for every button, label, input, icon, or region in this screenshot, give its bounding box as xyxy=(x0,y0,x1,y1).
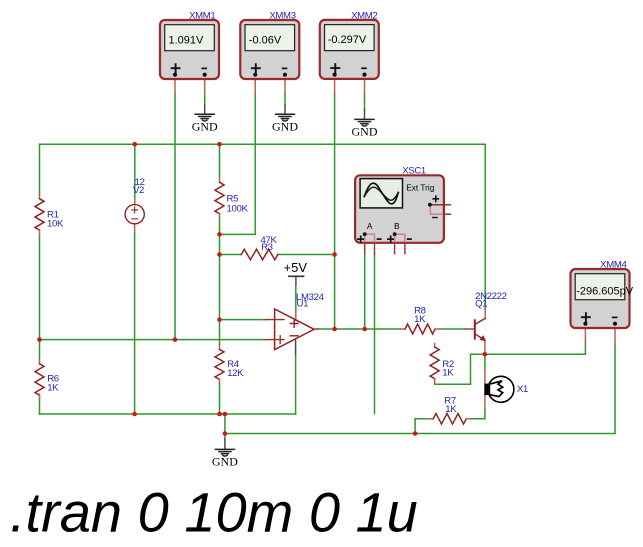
ground symbol bottom center xyxy=(212,449,238,468)
wire V2 top lead xyxy=(134,144,136,199)
svg-text:-296.605pV: -296.605pV xyxy=(576,286,634,298)
wire ground stub center xyxy=(224,414,226,439)
node V2 top on rail xyxy=(133,142,138,147)
wire scope A plus down xyxy=(364,254,366,329)
node R4 bottom on ground rail xyxy=(217,412,222,417)
wire XMM1 minus to gnd xyxy=(204,94,206,105)
wire opamp inverting input line xyxy=(220,319,266,321)
svg-text:U1: U1 xyxy=(297,299,309,310)
svg-text:GND: GND xyxy=(212,455,238,469)
wire +5V to opamp power xyxy=(295,285,297,311)
svg-text:V2: V2 xyxy=(133,185,144,196)
svg-text:1K: 1K xyxy=(442,368,454,379)
svg-text:Ext Trig: Ext Trig xyxy=(406,182,435,192)
svg-text:1.091V: 1.091V xyxy=(169,34,205,46)
voltage source V2 xyxy=(125,177,144,224)
resistor R4 xyxy=(215,345,244,384)
svg-text:-0.06V: -0.06V xyxy=(249,34,282,46)
node R1-R6 divider xyxy=(37,337,42,342)
resistor R8 xyxy=(400,305,440,334)
svg-text:R3: R3 xyxy=(261,242,273,253)
node Q1 emitter junction xyxy=(483,352,488,357)
resistor R7 xyxy=(429,395,470,424)
wire node to ground stub xyxy=(220,413,225,415)
svg-text:GND: GND xyxy=(272,119,298,133)
ext trig terminal xyxy=(433,196,438,201)
wire V2 bottom to ground rail xyxy=(134,233,136,414)
node output / scope A xyxy=(362,327,367,332)
svg-text:XMM3: XMM3 xyxy=(269,10,295,21)
svg-text:B: B xyxy=(394,221,400,231)
svg-text:.tran 0 10m 0 1u: .tran 0 10m 0 1u xyxy=(10,481,418,544)
wire left rail lower (R6 bottom to ground rail) xyxy=(39,398,41,414)
wire XMM3 plus down xyxy=(254,94,256,235)
wire opamp output line xyxy=(318,328,400,330)
wire emitter node left branch xyxy=(435,354,485,384)
svg-text:GND: GND xyxy=(192,119,218,133)
wire XMM3 plus to node xyxy=(220,233,256,235)
node gnd stub lower xyxy=(223,431,228,436)
wire XMM4 plus vertical xyxy=(584,344,586,355)
gnd stub XMM2 xyxy=(364,109,366,119)
svg-text:XMM2: XMM2 xyxy=(351,10,377,21)
scope sine wave xyxy=(364,183,398,204)
node V2 bottom on ground rail xyxy=(132,412,137,417)
wire R7 left xyxy=(415,418,429,420)
svg-text:100K: 100K xyxy=(227,203,249,214)
node R3 right / XMM2 xyxy=(332,252,337,257)
wire left rail upper (to R1) xyxy=(39,144,41,194)
svg-text:12K: 12K xyxy=(227,368,244,379)
oscilloscope XSC1 xyxy=(355,165,450,253)
node R7 on lower rail xyxy=(413,431,418,436)
gnd stub bottom xyxy=(224,439,226,450)
wire ground rail right xyxy=(225,433,615,435)
gnd stub XMM3 xyxy=(284,105,286,115)
transistor Q1 2N2222 xyxy=(466,291,507,341)
pin lamp bottom xyxy=(484,395,486,409)
resistor R2 xyxy=(430,344,454,385)
wire scope A minus down dangling xyxy=(374,254,376,414)
wire Q1 collector up to rail xyxy=(484,144,486,309)
gray wires xyxy=(205,105,365,450)
node R3 left xyxy=(217,252,222,257)
pin +5V vertical xyxy=(295,276,297,284)
wire opamp negative power down xyxy=(295,354,297,414)
node output / XMM2 xyxy=(332,327,337,332)
svg-text:1K: 1K xyxy=(445,404,457,415)
svg-text:-0.297V: -0.297V xyxy=(328,34,367,46)
pin XMM3 minus xyxy=(284,78,286,93)
wire XMM3 minus to gnd xyxy=(284,94,286,105)
wire lamp bottom xyxy=(484,409,486,419)
svg-text:XMM1: XMM1 xyxy=(189,10,215,21)
resistor R3 xyxy=(241,235,278,260)
wire ground rail left xyxy=(40,413,296,415)
wire XMM4 minus vertical xyxy=(614,344,616,434)
wire XMM1 plus down xyxy=(174,94,176,340)
pin V2 bottom xyxy=(134,224,136,233)
svg-text:A: A xyxy=(367,221,373,231)
pin XMM4 plus xyxy=(584,328,586,344)
ground symbol under XMM3 xyxy=(272,114,298,133)
svg-text:XSC1: XSC1 xyxy=(402,165,426,176)
pin opamp positive power xyxy=(295,310,297,320)
pin XMM2 plus xyxy=(334,78,336,93)
wire opamp noninverting input line xyxy=(40,339,266,341)
multimeter XMM3 xyxy=(240,10,299,79)
pin lamp top xyxy=(484,369,486,384)
multimeter XMM2 xyxy=(320,10,379,79)
svg-text:GND: GND xyxy=(352,125,378,139)
wire R3 right xyxy=(278,254,335,256)
node R5 top on rail xyxy=(217,142,222,147)
wire R5 top lead xyxy=(219,144,221,178)
node R5 bottom / XMM3 xyxy=(217,232,222,237)
power +5V symbol xyxy=(284,260,308,276)
svg-text:1K: 1K xyxy=(47,382,59,393)
wire emitter node to XMM4 plus xyxy=(485,353,586,355)
resistor R1 xyxy=(35,194,64,236)
node gnd stub on ground rail xyxy=(223,412,228,417)
svg-text:+5V: +5V xyxy=(284,260,308,275)
multimeter XMM4 xyxy=(571,259,634,328)
wire left rail mid (R1 bottom to R6 top via node) xyxy=(39,236,41,359)
lamp X1 xyxy=(484,376,528,402)
wire lamp top segment xyxy=(484,354,486,368)
pin XMM2 minus xyxy=(364,78,366,93)
svg-text:XMM4: XMM4 xyxy=(600,259,627,270)
pin opamp negative power xyxy=(295,339,297,354)
multimeter XMM1 xyxy=(160,10,219,79)
svg-text:Q1: Q1 xyxy=(475,298,487,309)
red pin wires xyxy=(135,78,615,409)
ground symbol under XMM2 xyxy=(352,119,378,138)
svg-text:10K: 10K xyxy=(47,219,64,230)
pin XMM4 minus xyxy=(614,328,616,344)
wire R3 left xyxy=(220,254,242,256)
pin XMM1 plus xyxy=(174,78,176,93)
wire R7 drop to ground rail xyxy=(414,419,416,434)
wire lamp to R7 xyxy=(470,418,485,420)
ground symbol under XMM1 xyxy=(192,114,218,133)
resistor R5 xyxy=(215,178,248,219)
svg-text:1K: 1K xyxy=(414,314,426,325)
gnd stub XMM1 xyxy=(204,105,206,115)
wire XMM2 minus to gnd xyxy=(364,94,366,110)
wire R4 bottom to ground rail xyxy=(219,384,221,415)
pin V2 top xyxy=(134,199,136,204)
pin XMM1 minus xyxy=(204,78,206,93)
wire XMM2 plus down xyxy=(334,94,336,329)
wire top rail xyxy=(40,143,486,145)
pin XMM3 plus xyxy=(254,78,256,93)
wire node column R5-R3-R4 xyxy=(219,219,221,345)
node inverting input xyxy=(217,317,222,322)
op-amp U1 LM324 xyxy=(266,292,325,350)
resistor R6 xyxy=(35,359,59,398)
svg-text:X1: X1 xyxy=(517,384,528,395)
pin Q1 collector vertical xyxy=(484,309,486,318)
wire Q1 base line xyxy=(440,328,466,330)
pin Q1 emitter vertical xyxy=(484,340,486,354)
node XMM1 plus on input line xyxy=(173,337,178,342)
